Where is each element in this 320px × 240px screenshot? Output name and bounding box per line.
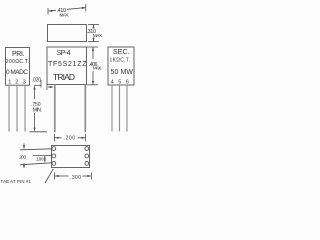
svg-text:2: 2 — [15, 79, 18, 85]
svg-text:SEC.: SEC. — [113, 49, 130, 56]
svg-text:MAX.: MAX. — [60, 13, 70, 19]
svg-text:.020: .020 — [32, 78, 42, 84]
svg-text:MIN.: MIN. — [33, 107, 42, 113]
svg-text:200ΩC.T.: 200ΩC.T. — [6, 59, 30, 65]
svg-text:TF5S21ZZ: TF5S21ZZ — [48, 61, 87, 68]
svg-text:TAB AT PIN #1: TAB AT PIN #1 — [1, 179, 32, 184]
svg-text:.200: .200 — [19, 154, 27, 159]
svg-text:.300: .300 — [70, 175, 81, 181]
svg-text:3: 3 — [23, 79, 26, 85]
svg-text:TRIAD: TRIAD — [53, 72, 75, 82]
svg-text:6: 6 — [126, 79, 129, 85]
svg-text:5: 5 — [118, 79, 121, 85]
svg-text:SP-4: SP-4 — [57, 50, 71, 57]
svg-text:1KΩC.T.: 1KΩC.T. — [110, 58, 131, 64]
svg-text:50 MW: 50 MW — [111, 69, 134, 76]
svg-text:1: 1 — [8, 79, 11, 85]
svg-text:0 MADC: 0 MADC — [6, 69, 28, 76]
svg-text:.200: .200 — [64, 135, 76, 141]
svg-text:MAX.: MAX. — [93, 33, 103, 39]
svg-text:MAX.: MAX. — [93, 66, 102, 72]
svg-text:4: 4 — [111, 79, 114, 85]
svg-text:PRI.: PRI. — [12, 51, 25, 58]
svg-text:.100: .100 — [36, 156, 44, 161]
